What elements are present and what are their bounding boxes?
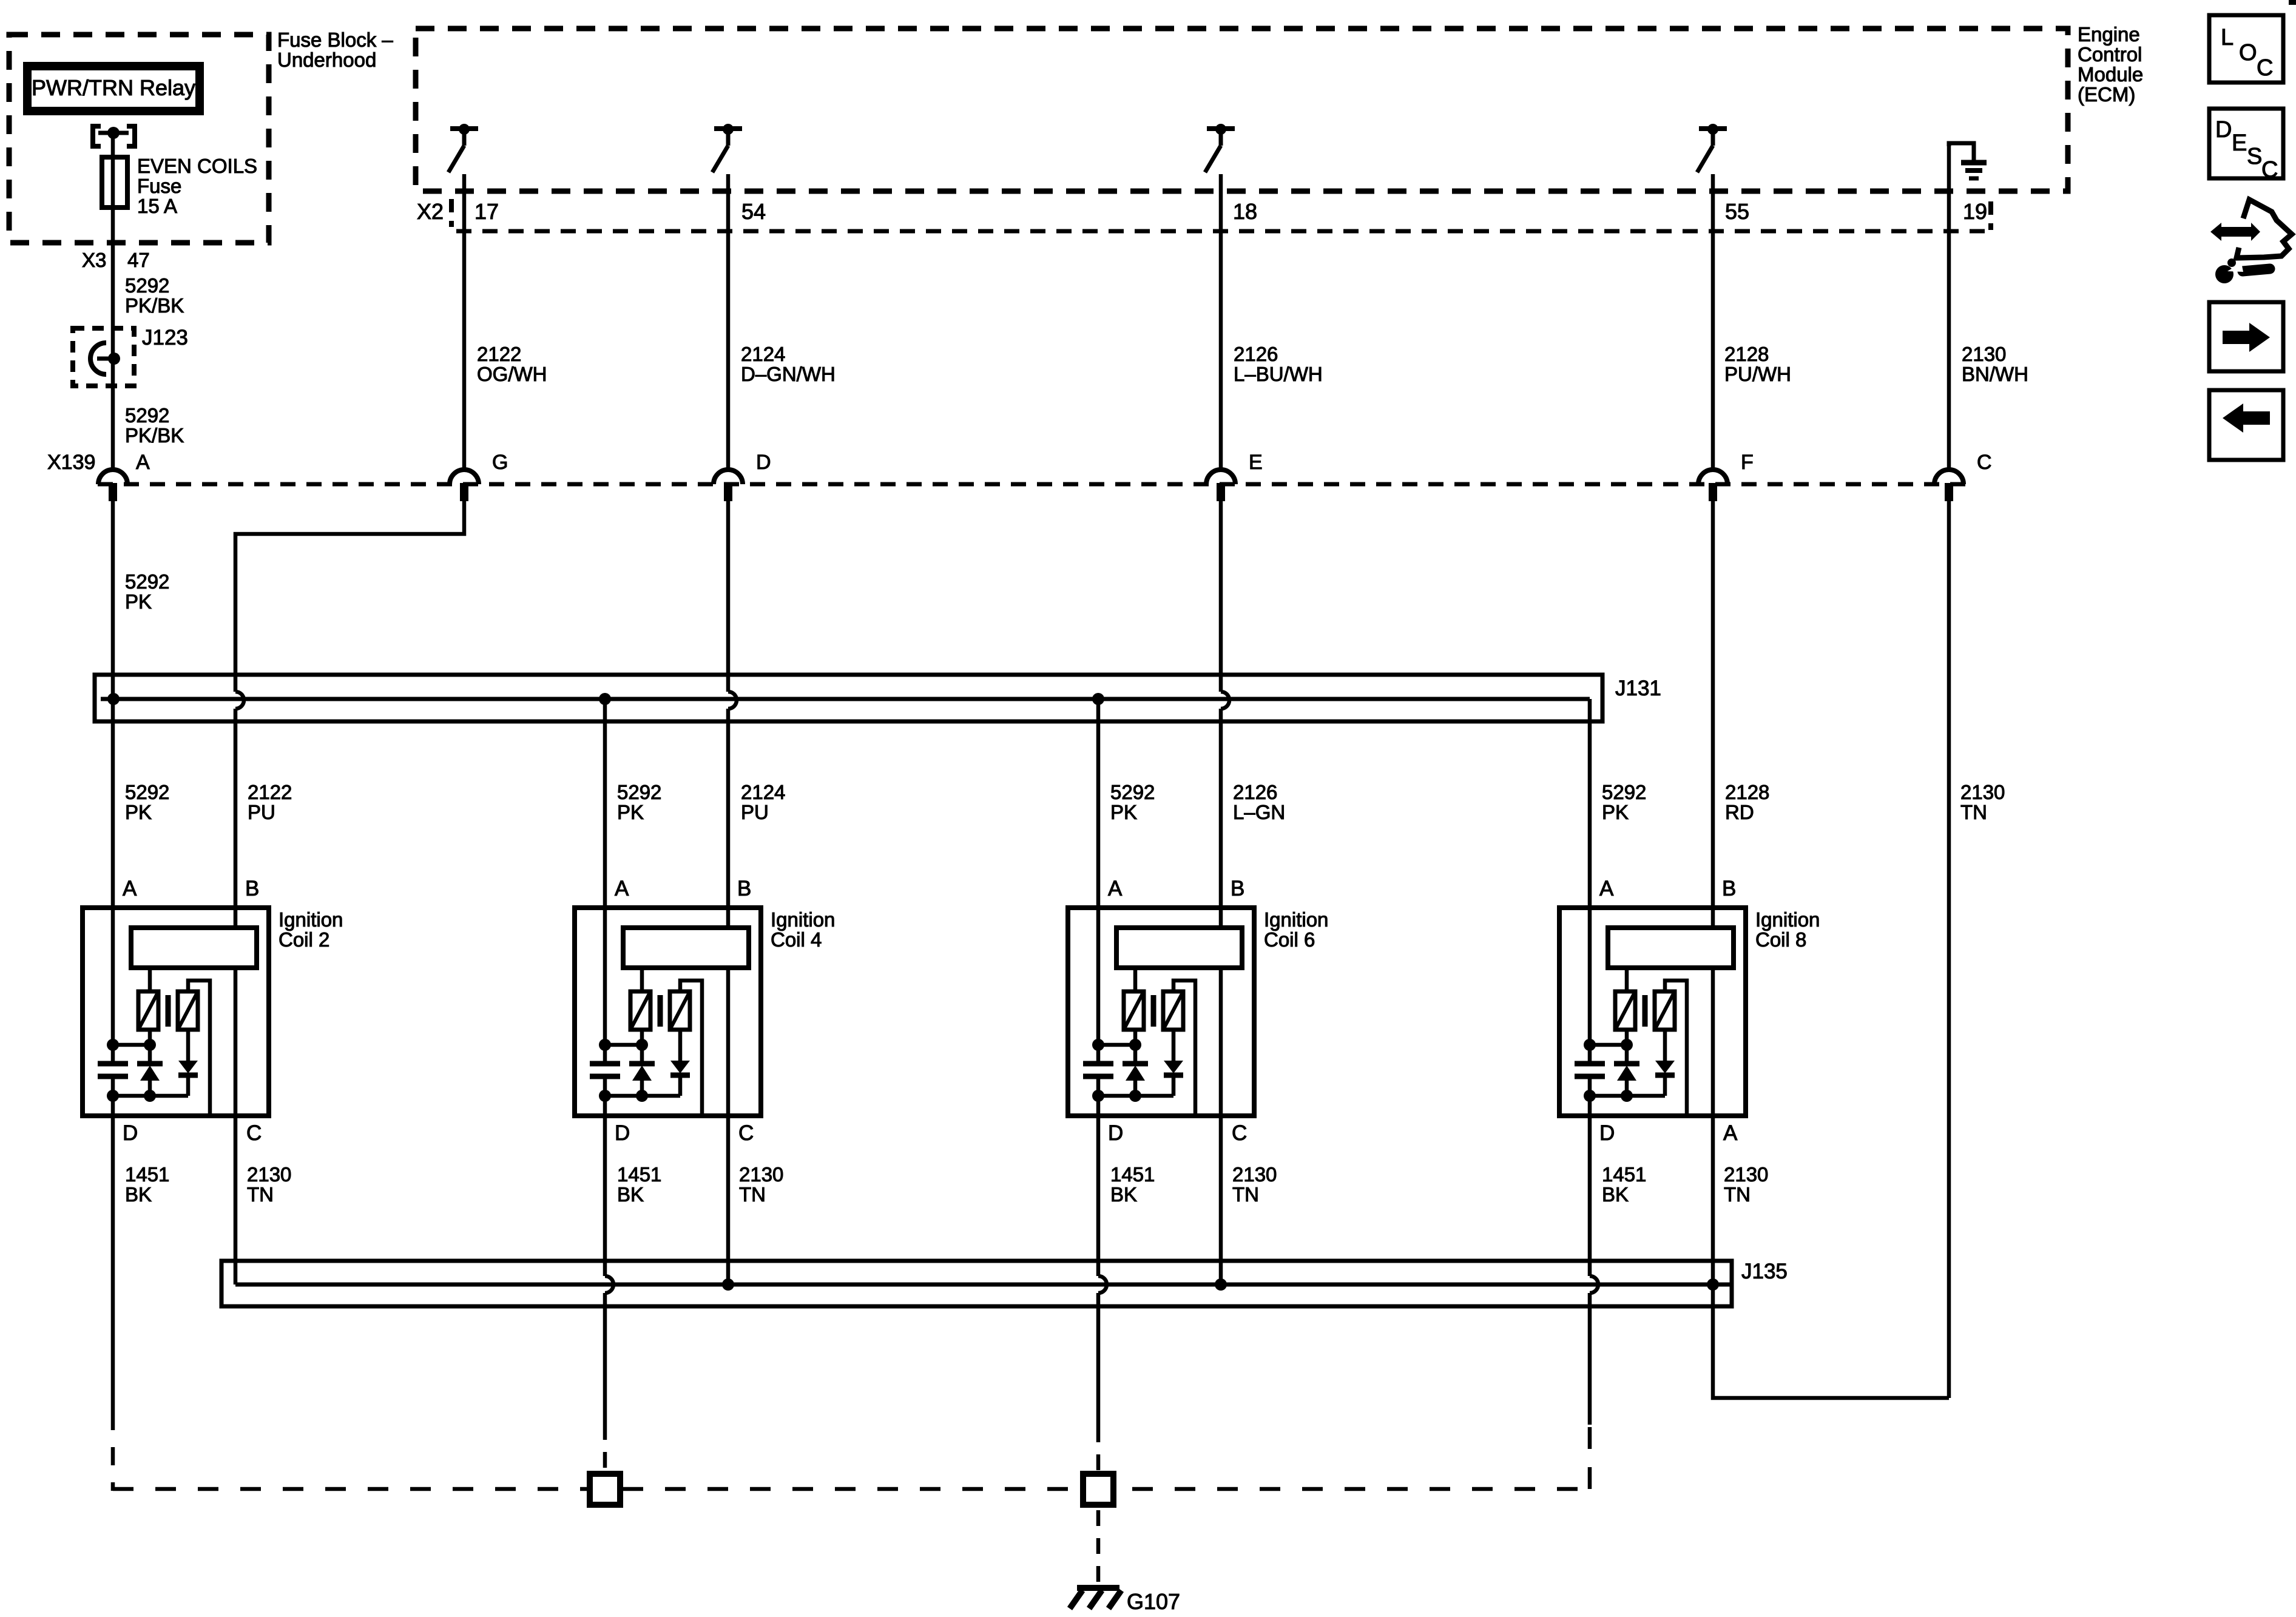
ignition coil 6 outer box (1068, 908, 1254, 1116)
pin D label (756, 451, 771, 474)
wire label 2122 PU (248, 781, 292, 823)
wire 1451 BK coil8 pin D to J135 hop (1588, 1076, 1592, 1276)
svg-text:17: 17 (474, 199, 499, 224)
svg-text:A: A (136, 451, 150, 474)
svg-text:2126: 2126 (1233, 781, 1277, 803)
svg-text:TN: TN (1724, 1183, 1751, 1206)
engine control module dashed box (416, 29, 2068, 191)
dashed ground wire 1451 BK coil2 drop (111, 1412, 115, 1491)
ignition coil 2 pin B (245, 877, 259, 900)
ignition coil 4 pin D (615, 1121, 630, 1145)
pin 54 label (741, 199, 766, 224)
ignition coil 6 pin D (1108, 1121, 1123, 1145)
pin 17 label (474, 199, 499, 224)
svg-text:TN: TN (1232, 1183, 1259, 1206)
ignition coil 8 pin D (1599, 1121, 1615, 1145)
ignition coil 6 pin A (1108, 877, 1123, 900)
svg-text:C: C (738, 1121, 754, 1145)
ignition coil 2 core (166, 995, 171, 1027)
fuse holder clip right (127, 126, 135, 146)
svg-text:Coil 6: Coil 6 (1264, 928, 1315, 951)
svg-text:G107: G107 (1127, 1589, 1180, 1614)
ignition coil 2 module block (131, 928, 257, 968)
ignition coil 6 diode 1 (1123, 1045, 1148, 1096)
svg-text:C: C (2257, 55, 2273, 81)
pin C label (1977, 451, 1992, 474)
ignition coil 8 pin B (1722, 877, 1736, 900)
ignition coil 6 capacitor (1083, 1064, 1113, 1076)
svg-text:1451: 1451 (1602, 1163, 1646, 1186)
ground splice square (coil4 drop) (590, 1474, 620, 1505)
svg-text:PWR/TRN Relay: PWR/TRN Relay (32, 75, 195, 100)
svg-text:Fuse: Fuse (137, 175, 181, 197)
svg-text:C: C (2261, 157, 2278, 183)
splice J123 label (142, 326, 188, 349)
svg-text:Engine: Engine (2078, 23, 2140, 46)
splice J131 label (1615, 677, 1661, 700)
svg-text:BK: BK (1110, 1183, 1137, 1206)
ignition coil 6 primary bottom link (1092, 1030, 1141, 1051)
ignition coil 2 secondary winding (178, 991, 198, 1030)
wire 1451 BK coil6 below J135 (1096, 1293, 1101, 1426)
wire label 2128 PU/WH (1724, 343, 1791, 385)
hop of wire 2122 over splice J131 (235, 692, 244, 709)
wire label 2130 TN coil2 (247, 1163, 291, 1206)
ignition coil 4 diode 1 (629, 1045, 655, 1096)
ignition coil 8 pin A (1723, 1121, 1738, 1145)
svg-text:(ECM): (ECM) (2078, 83, 2135, 106)
ignition coil 4 outer box (575, 908, 761, 1116)
svg-text:BK: BK (125, 1183, 152, 1206)
svg-text:2130: 2130 (247, 1163, 291, 1186)
svg-text:E: E (2232, 130, 2247, 156)
svg-text:C: C (1232, 1121, 1247, 1145)
ignition coil 4 core (658, 995, 663, 1027)
svg-text:2122: 2122 (477, 343, 521, 365)
splice J123 clip symbol (90, 343, 120, 374)
ignition coil 2 pin D (123, 1121, 138, 1145)
ignition coil 2 label (279, 908, 343, 951)
ignition coil 8 pin A (1599, 877, 1614, 900)
svg-text:A: A (123, 877, 137, 900)
svg-text:TN: TN (739, 1183, 766, 1206)
ground G107 label (1127, 1589, 1180, 1614)
svg-text:PU: PU (248, 801, 275, 823)
ignition coil 6 module block (1116, 928, 1242, 968)
wire label 2130 TN coil6 (1232, 1163, 1277, 1206)
ignition coil 6 diode 2 (1164, 1030, 1183, 1096)
wire 2128 from ECM pin55 switch to X139-F (1711, 174, 1715, 468)
svg-text:O: O (2239, 40, 2257, 66)
wire label 2128 RD (1725, 781, 1769, 823)
connector X2 tick after label (449, 199, 454, 227)
svg-text:1451: 1451 (1110, 1163, 1155, 1186)
wire label 5292 PK coil4 (617, 781, 661, 823)
svg-text:PK: PK (617, 801, 644, 823)
hop of wire 2126 over splice J131 (1221, 692, 1229, 709)
svg-text:S: S (2247, 144, 2262, 169)
fuse EVEN COILS label (137, 155, 257, 217)
ignition coil 4 secondary winding (670, 991, 690, 1030)
svg-text:PK/BK: PK/BK (125, 424, 184, 447)
ignition coil 2 primary bottom link (107, 1030, 156, 1051)
ignition coil 4 capacitor (590, 1064, 620, 1076)
svg-text:G: G (492, 451, 508, 474)
wire 2126 below X139-E (1219, 501, 1223, 692)
fuse EVEN COILS 15 A body (102, 157, 127, 208)
splice J131 box (95, 675, 1602, 721)
svg-text:5292: 5292 (125, 570, 169, 593)
wire 5292 PK/BK fuse output (col A x=186) (111, 133, 115, 468)
wire 2128 below X139-F / 2130 TN from coil8 pin A to corner (1713, 501, 1949, 1398)
connector X139 terminal C (1934, 470, 1963, 501)
svg-text:A: A (1108, 877, 1123, 900)
wire label 2122 OG/WH (477, 343, 547, 385)
svg-text:C: C (1977, 451, 1992, 474)
pin 47 label (127, 249, 150, 271)
svg-text:B: B (245, 877, 259, 900)
svg-text:Ignition: Ignition (1264, 908, 1328, 931)
svg-text:A: A (1723, 1121, 1738, 1145)
svg-text:X3: X3 (82, 249, 106, 271)
ignition coil 2 diode 1 (137, 1045, 163, 1096)
wire label 1451 BK coil2 (125, 1163, 169, 1206)
ECM driver switch pin 17 (448, 124, 478, 172)
svg-text:PU: PU (741, 801, 769, 823)
wire label 2124 D-GN/WH (741, 343, 836, 385)
connector X139 terminal F (1698, 470, 1727, 501)
svg-text:PK: PK (1602, 801, 1629, 823)
ignition coil 4 bottom link (599, 1090, 680, 1102)
ignition coil 8 primary winding (1615, 991, 1635, 1030)
svg-text:PK: PK (125, 590, 152, 613)
svg-text:A: A (615, 877, 629, 900)
wire label 5292 PK coil8 (1602, 781, 1646, 823)
svg-text:X139: X139 (47, 451, 95, 474)
wire 2122 PU down to ignition coil 2 pin B and 2130 TN pin C to splice J135 (234, 709, 238, 1284)
svg-text:X2: X2 (417, 199, 444, 224)
ignition coil 6 label (1264, 908, 1328, 951)
wire label 1451 BK coil6 (1110, 1163, 1155, 1206)
svg-text:2124: 2124 (741, 343, 785, 365)
svg-text:Module: Module (2078, 63, 2143, 86)
wire 5292 PK splice J131 right end down to coil8 (1588, 699, 1592, 1064)
ECM label (2078, 23, 2143, 106)
svg-text:47: 47 (127, 249, 150, 271)
ignition coil 8 diode 2 (1655, 1030, 1675, 1096)
pin 55 label (1725, 199, 1749, 224)
wire 1451 BK coil4 pin D to J135 hop (603, 1076, 607, 1276)
ignition coil 6 module to primary wire (1133, 968, 1138, 991)
connector X3 label (82, 249, 106, 271)
svg-text:EVEN COILS: EVEN COILS (137, 155, 257, 177)
svg-text:D: D (1108, 1121, 1123, 1145)
ignition coil 2 secondary output to case (188, 981, 210, 1116)
icon forward arrow box (2209, 302, 2283, 371)
svg-text:Fuse Block –: Fuse Block – (277, 29, 393, 51)
svg-text:D: D (615, 1121, 630, 1145)
splice J135 bus line (235, 1283, 1732, 1287)
ECM internal ground symbol (1949, 143, 1987, 178)
fuse holder clip left (93, 126, 101, 146)
wire label 2126 L-GN (1233, 781, 1285, 823)
wire label 2124 PU (741, 781, 785, 823)
fuse block underhood dashed box (9, 35, 269, 243)
dashed ground drop coil6 through splice to G107 (1096, 1426, 1101, 1587)
ignition coil 2 module to primary wire (148, 968, 152, 991)
svg-text:A: A (1599, 877, 1614, 900)
wire 1451 BK coil6 pin D to J135 hop (1096, 1076, 1101, 1276)
svg-text:J135: J135 (1741, 1260, 1788, 1283)
svg-text:15 A: 15 A (137, 195, 177, 217)
wire 5292 PK splice J131 to coil4 capacitor (603, 699, 607, 1064)
wire label 2130 TN coil8 (1724, 1163, 1768, 1206)
svg-text:2130: 2130 (1962, 343, 2006, 365)
junction dot J131 col 1810 (1092, 693, 1104, 705)
wire 1451 BK coil8 below J135 (1588, 1293, 1592, 1425)
wire 2124 below X139-D (726, 501, 731, 692)
wire 2124 PU coil4 pin B / 2130 TN pin C to J135 (726, 709, 731, 1284)
fuse holder terminal (98, 127, 129, 139)
wire label 2130 TN right (1960, 781, 2005, 823)
hop of wire 1451 BK coil8 over splice J135 (1590, 1276, 1598, 1293)
svg-text:L: L (2221, 25, 2234, 50)
dashed ground drop coil4 to splice square (603, 1424, 607, 1489)
ignition coil 2 outer box (83, 908, 269, 1116)
icon DESC box (2209, 109, 2283, 183)
svg-text:E: E (1249, 451, 1263, 474)
svg-text:TN: TN (1960, 801, 1987, 823)
hop of wire 2124 over splice J131 (728, 692, 737, 709)
svg-text:PK: PK (1110, 801, 1137, 823)
junction dot J135 col 1200 (722, 1278, 734, 1291)
svg-text:TN: TN (247, 1183, 274, 1206)
svg-text:2124: 2124 (741, 781, 785, 803)
svg-text:5292: 5292 (125, 781, 169, 803)
ECM driver switch pin 54 (712, 124, 742, 172)
ignition coil 8 core (1643, 995, 1648, 1027)
svg-text:RD: RD (1725, 801, 1754, 823)
svg-text:L–GN: L–GN (1233, 801, 1285, 823)
connector X2 line (ECM) (456, 229, 1991, 234)
icon vehicle diagnostic (2210, 200, 2292, 283)
wire 2126 from ECM pin18 switch to X139-E (1219, 174, 1223, 468)
svg-text:5292: 5292 (617, 781, 661, 803)
svg-text:PK: PK (125, 801, 152, 823)
svg-text:1451: 1451 (125, 1163, 169, 1186)
svg-text:5292: 5292 (1602, 781, 1646, 803)
svg-text:2128: 2128 (1724, 343, 1769, 365)
wire 5292 PK splice J131 to coil6 capacitor (1096, 699, 1101, 1064)
wire label 5292 PK coil6 (1110, 781, 1155, 823)
svg-text:BN/WH: BN/WH (1962, 363, 2028, 385)
svg-text:PK/BK: PK/BK (125, 294, 184, 317)
wire label 5292 PK (above J131) (125, 570, 169, 613)
wire label 5292 PK/BK lower (125, 404, 184, 447)
splice J131 bus line (101, 697, 1590, 701)
svg-text:PU/WH: PU/WH (1724, 363, 1791, 385)
ignition coil 4 pin C (738, 1121, 754, 1145)
svg-text:5292: 5292 (125, 274, 169, 297)
ignition coil 6 pin B (1231, 877, 1244, 900)
svg-text:D: D (1599, 1121, 1615, 1145)
pin 18 label (1233, 199, 1257, 224)
svg-text:2126: 2126 (1234, 343, 1278, 365)
ignition coil 4 secondary output to case (680, 981, 702, 1116)
svg-text:BK: BK (617, 1183, 644, 1206)
connector X139 label (47, 451, 95, 474)
connector X2 tick right of pin 19 (1988, 201, 1993, 230)
svg-text:2128: 2128 (1725, 781, 1769, 803)
ignition coil 2 pin A (123, 877, 137, 900)
svg-text:54: 54 (741, 199, 766, 224)
hop of wire 1451 BK coil4 over splice J135 (605, 1276, 613, 1293)
ground splice square (coil6 drop) (1083, 1474, 1113, 1505)
wire 2124 from ECM pin54 switch to X139-D (726, 174, 731, 468)
svg-text:5292: 5292 (1110, 781, 1155, 803)
icon LOC box (2209, 15, 2283, 83)
svg-text:Coil 8: Coil 8 (1755, 928, 1806, 951)
pin 19 label (1963, 199, 1987, 224)
splice J135 label (1741, 1260, 1788, 1283)
svg-text:Ignition: Ignition (1755, 908, 1820, 931)
ignition coil 2 bottom link (107, 1090, 188, 1102)
ignition coil 4 pin B (737, 877, 751, 900)
ignition coil 8 module to primary wire (1625, 968, 1629, 991)
svg-text:L–BU/WH: L–BU/WH (1234, 363, 1323, 385)
svg-text:2130: 2130 (1232, 1163, 1277, 1186)
ignition coil 8 bottom link (1584, 1090, 1665, 1102)
svg-text:J131: J131 (1615, 677, 1661, 700)
pin F label (1741, 451, 1754, 474)
ignition coil 6 secondary winding (1163, 991, 1183, 1030)
wire 2130 BN/WH below X139-C down to junction (1947, 501, 1951, 1398)
splice J123 dashed box (73, 328, 134, 386)
ignition coil 2 primary winding (138, 991, 158, 1030)
connector X139 terminal E (1206, 470, 1235, 501)
wire 5292 PK below X139-A to capacitor of coil 2 (111, 501, 115, 1064)
svg-text:B: B (1722, 877, 1736, 900)
svg-text:Ignition: Ignition (279, 908, 343, 931)
junction dot J131 col 997 (599, 693, 611, 705)
ignition coil 4 primary bottom link (599, 1030, 648, 1051)
wire 2122 jog from X139-G to coil2 column (235, 501, 464, 692)
svg-text:D: D (123, 1121, 138, 1145)
svg-text:2122: 2122 (248, 781, 292, 803)
dashed ground wire 1451 BK horizontal run (113, 1487, 1590, 1491)
wire label 5292 PK coil2 (125, 781, 169, 823)
connector X139 terminal G (450, 470, 479, 501)
svg-text:Underhood: Underhood (277, 49, 376, 71)
hop of wire 1451 BK coil6 over splice J135 (1098, 1276, 1107, 1293)
connector X2 label (417, 199, 444, 224)
svg-text:B: B (1231, 877, 1244, 900)
ECM driver switch pin 55 (1697, 124, 1727, 172)
ignition coil 8 label (1755, 908, 1820, 951)
pin E label (1249, 451, 1263, 474)
svg-text:2130: 2130 (1724, 1163, 1768, 1186)
ignition coil 4 diode 2 (670, 1030, 690, 1096)
ignition coil 8 outer box (1559, 908, 1746, 1116)
ignition coil 8 module block (1608, 928, 1734, 968)
ignition coil 4 pin A (615, 877, 629, 900)
ignition coil 6 core (1151, 995, 1156, 1027)
splice J135 box (221, 1261, 1732, 1306)
svg-text:C: C (246, 1121, 262, 1145)
svg-text:2130: 2130 (1960, 781, 2005, 803)
svg-text:D–GN/WH: D–GN/WH (741, 363, 836, 385)
wire 1451 BK coil2 pin D down (111, 1076, 115, 1412)
svg-text:F: F (1741, 451, 1754, 474)
ignition coil 4 module block (623, 928, 749, 968)
fuse block label (277, 29, 393, 71)
wire 1451 BK coil4 below J135 (603, 1293, 607, 1424)
pin G label (492, 451, 508, 474)
ignition coil 4 primary winding (630, 991, 650, 1030)
svg-text:OG/WH: OG/WH (477, 363, 547, 385)
svg-text:18: 18 (1233, 199, 1257, 224)
ignition coil 6 pin C (1232, 1121, 1247, 1145)
wire label 2130 TN coil4 (739, 1163, 783, 1206)
svg-text:Ignition: Ignition (771, 908, 835, 931)
ignition coil 2 pin C (246, 1121, 262, 1145)
ignition coil 8 capacitor (1575, 1064, 1605, 1076)
ground G107 symbol (1070, 1588, 1121, 1609)
ignition coil 8 primary bottom link (1584, 1030, 1633, 1051)
ignition coil 6 secondary output to case (1173, 981, 1195, 1116)
relay PWR/TRN box (23, 62, 204, 115)
ignition coil 2 diode 2 (178, 1030, 198, 1096)
wire label 5292 PK/BK upper (125, 274, 184, 317)
dashed ground wire 1451 BK coil8 drop (1588, 1423, 1592, 1489)
ignition coil 8 diode 1 (1614, 1045, 1639, 1096)
junction dot J135 col 2012 (1215, 1278, 1227, 1291)
svg-text:Coil 4: Coil 4 (771, 928, 822, 951)
svg-text:Coil 2: Coil 2 (279, 928, 329, 951)
icon back arrow box (2209, 390, 2283, 460)
ignition coil 2 capacitor (98, 1064, 128, 1076)
svg-text:2130: 2130 (739, 1163, 783, 1186)
ignition coil 6 primary winding (1124, 991, 1144, 1030)
svg-text:5292: 5292 (125, 404, 169, 427)
wire label 2126 L-BU/WH (1234, 343, 1323, 385)
relay PWR/TRN label (32, 75, 195, 100)
ignition coil 8 secondary output to case (1665, 981, 1687, 1116)
ECM driver switch pin 18 (1205, 124, 1235, 172)
wire 2122 from ECM pin17 switch to X139-G (462, 174, 467, 468)
connector X139 line (98, 482, 1966, 487)
wire 2130 BN/WH from ECM pin19 to X139-C (1947, 146, 1951, 468)
pin A label (136, 451, 150, 474)
junction dot J135 col 2823 (1707, 1278, 1719, 1291)
svg-text:19: 19 (1963, 199, 1987, 224)
svg-text:D: D (2215, 117, 2232, 143)
wire label 1451 BK coil8 (1602, 1163, 1646, 1206)
connector X139 terminal A (98, 470, 127, 501)
ignition coil 4 label (771, 908, 835, 951)
ignition coil 8 secondary winding (1655, 991, 1675, 1030)
ignition coil 6 bottom link (1092, 1090, 1173, 1102)
junction dot J131 col 186 (107, 693, 120, 705)
svg-text:J123: J123 (142, 326, 188, 349)
wire 2126 L-GN coil6 pin B / 2130 TN pin C to J135 (1219, 709, 1223, 1284)
svg-text:BK: BK (1602, 1183, 1629, 1206)
svg-text:Control: Control (2078, 43, 2142, 66)
wire label 2130 BN/WH (1962, 343, 2028, 385)
svg-text:55: 55 (1725, 199, 1749, 224)
svg-text:D: D (756, 451, 771, 474)
svg-text:B: B (737, 877, 751, 900)
